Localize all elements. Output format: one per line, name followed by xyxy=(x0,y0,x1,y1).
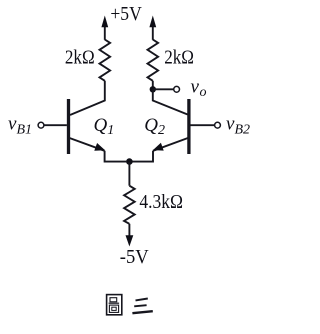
wire: Q1 emitter to common node xyxy=(105,151,127,162)
node vo junction xyxy=(150,86,156,92)
wire: tail resistor to -5V arrow xyxy=(128,224,130,236)
svg-text:2kΩ: 2kΩ xyxy=(164,47,194,68)
power -5V arrow xyxy=(126,235,134,246)
caption character 三 xyxy=(132,299,152,314)
power +5V arrow (left supply) xyxy=(101,16,108,40)
wire: Q2 emitter to common node xyxy=(133,151,154,162)
resistor RE 4.3k ohm (tail resistor) xyxy=(124,186,135,224)
svg-text:vB2: vB2 xyxy=(226,114,250,138)
node vB2 terminal xyxy=(215,122,221,128)
wire: Q2 base to vB2 terminal xyxy=(191,124,215,126)
svg-text:Q2: Q2 xyxy=(144,115,165,138)
power +5V arrow (right supply) xyxy=(149,16,156,40)
resistor RC1 2k ohm (left collector resistor) xyxy=(100,40,111,81)
transistor Q1 xyxy=(69,99,106,154)
resistor RC2 2k ohm (right collector resistor) xyxy=(148,40,159,81)
node vo terminal xyxy=(174,86,180,92)
svg-text:vB1: vB1 xyxy=(8,114,32,138)
wire: RC1 bottom to Q1 collector xyxy=(70,81,105,115)
wire: common node to tail resistor xyxy=(128,162,130,186)
node common emitter junction xyxy=(126,158,133,165)
wire: vB1 terminal to Q1 base xyxy=(44,124,67,126)
svg-text:vo: vo xyxy=(191,76,207,100)
transistor Q2 xyxy=(153,99,189,154)
svg-text:4.3kΩ: 4.3kΩ xyxy=(139,192,183,213)
caption character 圖 xyxy=(107,295,122,315)
svg-text:2kΩ: 2kΩ xyxy=(65,47,95,68)
wire: vo junction to vo terminal xyxy=(153,88,174,90)
wire: vo junction to Q2 collector xyxy=(153,89,188,114)
svg-text:+5V: +5V xyxy=(110,4,141,25)
node vB1 terminal xyxy=(38,122,44,128)
svg-text:Q1: Q1 xyxy=(94,115,115,138)
wire: RC2 bottom to node vo xyxy=(152,81,154,90)
svg-text:-5V: -5V xyxy=(120,247,149,268)
